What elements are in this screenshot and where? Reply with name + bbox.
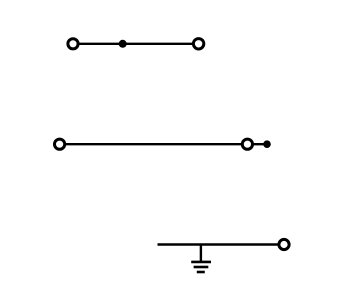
junction dot (top level) [119, 40, 127, 48]
terminal circle (top right) [193, 39, 203, 49]
terminal circle (middle right) [242, 139, 252, 149]
wire (middle stub to junction) [253, 143, 266, 145]
ground [191, 245, 211, 272]
terminal circle (bottom right) [279, 239, 289, 249]
terminal circle (top left) [68, 39, 78, 49]
wire (top level) [77, 43, 193, 45]
wire (bottom level) [158, 243, 280, 245]
wire (middle level) [64, 143, 243, 145]
junction dot (middle right) [263, 140, 271, 148]
terminal circle (middle left) [55, 139, 65, 149]
